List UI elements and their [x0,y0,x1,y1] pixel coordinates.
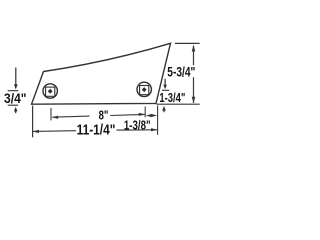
arrowhead left (8") [52,116,58,119]
tick B at right bolt hole center (below blade) [144,107,146,118]
tick A at left bolt hole center (below blade) [50,108,52,120]
dimension line 5-3/4 vertical (right) [193,46,195,103]
extension line from bottom edge (right) [157,103,200,105]
svg-text:1-3/4": 1-3/4" [159,90,185,105]
extension line from blade tip (top right) [175,42,200,44]
small up arrow below bottom extension (right) [162,106,166,111]
arrowhead up (5-3/4 top) [192,45,196,52]
svg-text:8": 8" [99,108,109,123]
arrowhead right (8") [139,113,145,116]
tick C extension from bottom-right corner (down) [157,106,159,135]
extension line from bottom-left corner (down) [32,106,34,138]
label 11-1/4" [76,122,117,139]
svg-text:11-1/4": 11-1/4" [77,122,116,139]
dimension line 11-1/4" (overall) [33,130,76,133]
svg-text:3/4": 3/4" [4,91,27,106]
dimension arrows 1-3/8 (between tick B and tick C) [146,114,152,117]
tick under 3/4 label (bottom reference, left) [8,104,19,106]
bolt hole 2 (carriage bolt, right) [137,82,151,96]
arrowhead down (5-3/4 bottom) [192,97,196,104]
down arrow for 3/4 (left) [15,68,17,86]
label 5-3/4" [167,64,196,79]
svg-text:5-3/4": 5-3/4" [167,64,195,79]
up arrow below 3/4 tick [14,107,18,112]
arrowhead left (11-1/4") [33,130,39,133]
blade outline (moldboard cutting edge) [32,43,171,104]
tick above 3/4 label [8,90,19,92]
label 1-3/4" [159,90,186,105]
dimension line 8" (between bolt holes) [52,116,89,117]
bolt hole 1 (carriage bolt, left) [43,84,57,98]
arrowhead right (11-1/4") [151,128,157,131]
tick at bolt-center level (right) [162,89,169,91]
small down arrow above 1-3/4 [164,79,166,86]
